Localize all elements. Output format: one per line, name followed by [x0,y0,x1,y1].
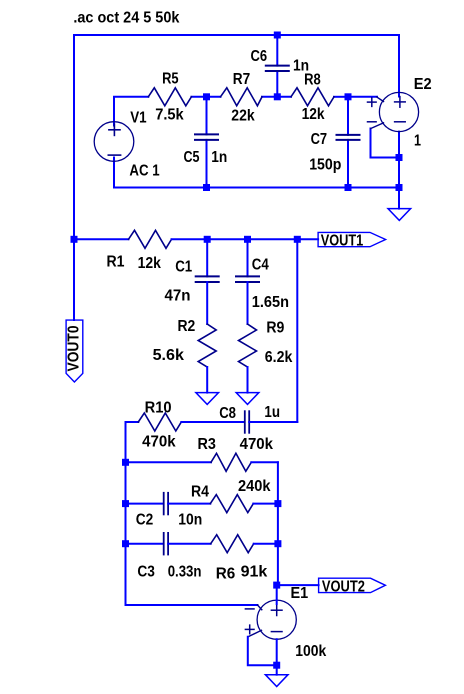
wire C1 top lead [206,239,208,276]
svg-text:V1: V1 [130,109,146,126]
wire bottom left rail [125,422,127,605]
wire R1 row left [74,238,129,240]
svg-text:C2: C2 [136,512,154,529]
wire C4 to R9 [247,282,249,324]
wire R3 row right [251,461,278,463]
dependent source E1 [257,600,296,639]
svg-text:C3: C3 [137,564,155,581]
svg-text:7.5k: 7.5k [155,107,184,124]
wire C3 row left [126,543,164,545]
svg-text:470k: 470k [240,436,273,453]
capacitor C5 [195,133,218,135]
node R8 C7 E2 [345,93,352,100]
voltage source V1 [94,122,134,162]
wire R2 to ground [206,367,208,393]
flag VOUT2 [319,578,386,592]
wire R10 to C8 [181,421,244,423]
node C1 top [204,236,211,243]
svg-text:1n: 1n [211,149,227,166]
svg-text:R2: R2 [178,318,196,335]
wire C8 to corner [249,421,297,423]
wire bottom right rail [277,462,279,585]
svg-text:1n: 1n [293,57,309,74]
node C3 left rail [122,540,129,547]
flag VOUT1 [318,232,386,246]
wire VOUT1 node down [296,239,298,422]
capacitor C7 [337,134,360,136]
wire E1 feedback [248,637,277,665]
svg-text:47n: 47n [165,287,191,304]
node VOUT2 [273,582,280,589]
wire R5 to R7 [191,96,220,98]
E1 control pin stubs [258,605,262,610]
wire R10 row left corner [126,421,139,423]
wire R6 row right [254,543,278,545]
capacitor C4 [236,275,259,277]
svg-text:91k: 91k [241,564,268,581]
node R5 R7 C5 [203,93,210,100]
svg-text:R9: R9 [266,320,284,337]
wire R3 row left [126,461,212,463]
resistor R6 [211,535,254,553]
capacitor C6 [266,65,289,67]
resistor R9 [239,324,257,367]
wire V1 bottom [113,158,115,188]
node top rail C6 [274,32,281,39]
wire top rail [74,34,399,36]
node C4 top [244,236,251,243]
wire E2 top [398,35,400,97]
wire C1 to R2 [206,282,208,324]
svg-text:1.65n: 1.65n [252,294,289,311]
resistor R2 [198,324,216,367]
svg-text:150p: 150p [309,156,341,173]
wire C5 top lead [206,97,208,135]
wire C7 bottom lead [347,140,349,188]
ground under E1 [265,675,288,687]
capacitor C3 [163,533,165,555]
svg-text:R1: R1 [107,254,125,271]
svg-text:R7: R7 [233,71,250,88]
ground under R2 [196,393,219,405]
node VOUT1 [294,236,301,243]
svg-text:12k: 12k [302,106,325,123]
svg-text:VOUT1: VOUT1 [321,233,364,250]
ground under R9 [236,393,259,405]
dependent source E2 [379,92,418,131]
resistor R10 [138,413,181,431]
resistor R8 [291,88,334,106]
wire E1 bottom [276,639,278,665]
svg-text:R5: R5 [162,70,179,87]
node E2 feedback [396,154,403,161]
flag VOUT0 [66,320,83,382]
resistor R3 [211,453,251,471]
svg-text:C7: C7 [311,131,328,148]
wire E1 top [276,585,278,604]
svg-text:240k: 240k [238,478,271,495]
wire C6 top lead [276,35,278,66]
node R7 R8 C6 [274,93,281,100]
node C2 left rail [122,500,129,507]
resistor R7 [221,88,263,106]
wire bottom rail to E1 minus control [126,604,258,606]
node R4 right rail [274,500,281,507]
svg-text:R6: R6 [216,565,236,582]
svg-text:470k: 470k [142,434,176,451]
wire C6 bottom lead [276,71,278,97]
resistor R4 [210,495,253,513]
svg-text:AC 1: AC 1 [129,162,159,179]
svg-text:E1: E1 [291,585,309,602]
svg-text:VOUT0: VOUT0 [65,325,82,371]
wire R8 to C7 node [334,96,348,98]
wire R9 to ground [247,367,249,393]
wire VOUT2 [277,584,319,586]
node C5 bottom rail [203,184,210,191]
wire C5 bottom lead [206,140,208,188]
svg-text:R4: R4 [191,484,209,501]
svg-text:C6: C6 [251,48,268,65]
wire C2 row left [126,503,164,505]
wire C2 to R4 [168,503,210,505]
svg-text:E2: E2 [414,76,432,93]
svg-text:C8: C8 [219,405,236,422]
node R6 right rail [274,540,281,547]
node E2 bottom rail [396,184,403,191]
svg-text:5.6k: 5.6k [153,347,184,364]
svg-text:1u: 1u [264,404,280,421]
ground under E2 [388,209,411,221]
wire left rail [73,35,75,320]
svg-text:R10: R10 [145,399,172,416]
wire bottom rail top block [114,187,399,189]
wire C7 top lead [347,97,349,135]
wire E1 ground lead [276,665,278,675]
node R3 left rail [122,459,129,466]
svg-text:.ac oct 24 5 50k: .ac oct 24 5 50k [73,10,179,27]
wire V1 top to R5 [114,97,148,126]
node E1 feedback [273,662,280,669]
wire node to E2 plus control [348,96,377,98]
svg-text:10n: 10n [178,512,202,529]
capacitor C2 [163,493,165,515]
svg-text:C5: C5 [184,149,200,166]
svg-text:0.33n: 0.33n [168,564,202,581]
wire E2 ground lead [398,188,400,209]
svg-text:12k: 12k [138,255,161,272]
wire E2 bottom [398,132,400,188]
wire R7 to R8 [262,96,291,98]
wire C3 to R6 [168,543,211,545]
capacitor C8 [244,411,246,433]
svg-text:VOUT2: VOUT2 [322,579,365,596]
wire C4 top lead [247,239,249,276]
wire R1 row right [172,238,319,240]
wire R4 row right [253,503,278,505]
node R1 left rail [71,236,78,243]
wire E2 feedback [371,129,400,158]
node C7 bottom rail [345,184,352,191]
svg-text:R3: R3 [198,436,216,453]
svg-text:C4: C4 [252,257,269,274]
resistor R5 [148,88,191,106]
resistor R1 [129,230,172,248]
svg-text:22k: 22k [231,107,254,124]
svg-text:6.2k: 6.2k [265,349,293,366]
svg-text:100k: 100k [295,643,326,660]
svg-text:C1: C1 [175,258,192,275]
E2 control pin stubs [377,97,384,102]
svg-text:1: 1 [414,132,421,149]
capacitor C1 [196,275,219,277]
